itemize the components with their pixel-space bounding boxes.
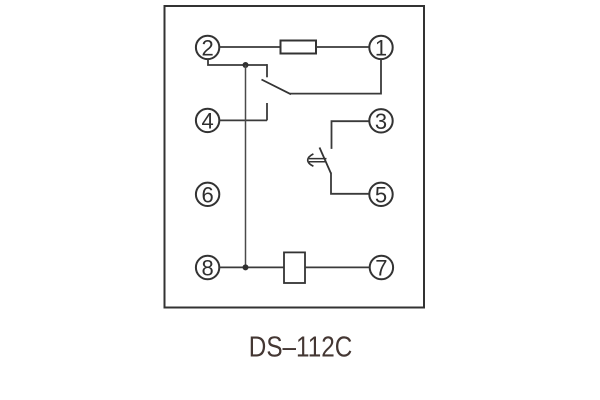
enclosure border <box>165 6 425 308</box>
long vertical wire (node A to terminal 8) <box>245 65 247 267</box>
terminal 3 <box>369 109 392 134</box>
terminal 2 <box>196 35 219 60</box>
actuation arrow shaft (double line) <box>309 158 327 160</box>
fixed contact stub of terminal 4 <box>266 103 268 120</box>
terminal 1 <box>369 35 392 60</box>
wire blade to terminal 5 <box>331 173 369 194</box>
svg-text:8: 8 <box>201 256 213 281</box>
wire terminal 4 <box>219 119 267 121</box>
svg-text:7: 7 <box>375 256 387 281</box>
contact blade K2 (3-5 contact, open) <box>320 148 332 174</box>
svg-text:1: 1 <box>375 35 387 60</box>
svg-text:DS–112C: DS–112C <box>249 331 352 363</box>
terminal 6 <box>196 182 219 207</box>
svg-text:6: 6 <box>201 182 213 207</box>
svg-text:3: 3 <box>375 109 387 134</box>
svg-text:5: 5 <box>375 182 387 207</box>
wire stub down from terminal 2 <box>208 59 267 65</box>
wire resistor to terminal1 <box>316 46 369 48</box>
resistor R (2-1) <box>281 41 317 54</box>
wire terminal 3 to fixed contact <box>332 121 370 149</box>
terminal 7 <box>370 256 393 281</box>
terminal 5 <box>369 182 392 207</box>
wire coil to terminal 7 <box>305 266 370 268</box>
svg-text:4: 4 <box>201 108 213 133</box>
terminal 4 <box>196 108 219 133</box>
svg-text:2: 2 <box>201 35 213 60</box>
junction node A <box>243 62 249 68</box>
wire terminal 8 to coil <box>219 266 284 268</box>
contact blade K1 (2-1 contact, open) <box>262 80 292 95</box>
wire blade to terminal 1 <box>290 59 381 94</box>
actuation arrow head <box>308 154 314 166</box>
wire terminal2 to resistor R <box>219 46 281 48</box>
terminal 8 <box>196 256 219 281</box>
junction node B <box>243 264 249 270</box>
coil KA (8-7) <box>284 252 305 283</box>
wire corner down (contact pivot feed) <box>266 64 268 77</box>
